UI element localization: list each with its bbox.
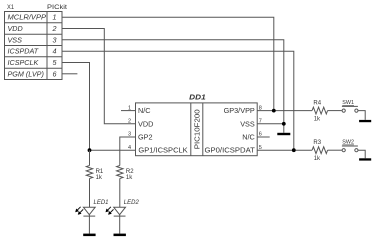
svg-text:1k: 1k	[314, 156, 321, 162]
node junction VSS	[282, 122, 286, 126]
svg-text:PICkit: PICkit	[47, 4, 67, 11]
svg-text:GP1/ICSPCLK: GP1/ICSPCLK	[138, 146, 187, 155]
wire R1 to LED1	[89, 179, 91, 208]
svg-text:6: 6	[259, 132, 262, 138]
pin 7 wire VSS	[257, 123, 284, 125]
switch SW1	[342, 106, 358, 112]
svg-text:VDD: VDD	[8, 24, 23, 33]
svg-text:GP2: GP2	[138, 133, 153, 142]
node junction on GP1 wire	[88, 148, 92, 152]
wire ICSPCLK from X1 pin5 down to GP1 row	[62, 63, 90, 151]
resistor R1	[86, 166, 92, 179]
svg-text:5: 5	[53, 58, 58, 67]
svg-text:LED2: LED2	[124, 200, 140, 206]
svg-text:ICSPDAT: ICSPDAT	[8, 47, 39, 56]
svg-text:MCLR/VPP: MCLR/VPP	[8, 13, 47, 22]
svg-text:2: 2	[128, 119, 131, 125]
svg-text:6: 6	[53, 69, 57, 78]
resistor R2	[117, 166, 123, 179]
svg-text:1: 1	[128, 105, 131, 111]
svg-text:LED1: LED1	[94, 200, 109, 206]
svg-text:X1: X1	[7, 4, 14, 11]
wire stub PGM (LVP) unconnected	[62, 73, 77, 75]
svg-text:2: 2	[52, 24, 57, 33]
svg-text:7: 7	[259, 119, 262, 125]
wire SW2 to ground	[358, 150, 365, 158]
svg-text:5: 5	[259, 145, 262, 151]
svg-text:8: 8	[259, 105, 262, 111]
wire VSS from X1 pin3 down to chip pin7 row	[62, 40, 284, 133]
wire VDD from X1 pin2 to chip pin2	[62, 29, 136, 124]
wire MCLR/VPP from X1 pin1 to GP3/VPP net	[62, 17, 274, 110]
svg-text:GP0/ICSPDAT: GP0/ICSPDAT	[205, 146, 256, 155]
LED1 emission arrows	[75, 207, 83, 215]
svg-text:PGM (LVP): PGM (LVP)	[8, 69, 44, 78]
node junction MCLR to GP3/VPP	[272, 109, 276, 113]
wire SW1 to ground	[358, 111, 365, 120]
svg-text:N/C: N/C	[138, 106, 151, 115]
pin 6 stub N/C	[257, 136, 270, 138]
svg-text:4: 4	[53, 47, 57, 56]
pin 4 wire GP1/ICSPCLK	[90, 149, 136, 151]
connector X1 outline	[5, 12, 63, 80]
resistor R4	[312, 107, 327, 114]
LED2	[114, 207, 126, 233]
svg-text:R4: R4	[313, 100, 321, 106]
pin 8 wire GP3/VPP to R4	[257, 110, 312, 112]
svg-text:VSS: VSS	[8, 35, 23, 44]
LED2 emission arrows	[106, 207, 114, 215]
resistor R3	[312, 147, 327, 154]
svg-text:N/C: N/C	[242, 133, 255, 142]
ground for LED1	[83, 234, 95, 237]
wire R1 top	[89, 150, 91, 165]
svg-text:SW2: SW2	[342, 140, 354, 146]
svg-text:DD1: DD1	[189, 95, 206, 102]
ground for SW2	[359, 158, 371, 160]
wire R2 to LED2	[119, 179, 121, 208]
svg-text:3: 3	[128, 132, 131, 138]
wire R4 to SW1	[328, 110, 342, 112]
ground for VSS	[277, 133, 290, 135]
ground for SW1	[359, 120, 371, 122]
wire R3 to SW2	[328, 149, 342, 151]
LED1	[83, 207, 95, 233]
op IC DD1 body	[136, 103, 258, 156]
svg-text:1k: 1k	[96, 175, 103, 181]
switch SW2	[342, 146, 358, 152]
svg-text:VSS: VSS	[240, 119, 255, 128]
pin 3 wire GP2 to resistor R2	[120, 137, 136, 166]
svg-text:4: 4	[128, 145, 131, 151]
pin 1 stub N/C	[121, 110, 136, 112]
ground for LED2	[114, 234, 126, 237]
node junction ICSPDAT to GP0	[292, 148, 296, 152]
pin 5 wire GP0/ICSPDAT to R3	[257, 149, 312, 151]
svg-text:R3: R3	[313, 140, 321, 146]
svg-text:1k: 1k	[126, 175, 133, 181]
svg-text:GP3/VPP: GP3/VPP	[224, 106, 255, 115]
svg-text:VDD: VDD	[138, 119, 153, 128]
svg-text:ICSPCLK: ICSPCLK	[8, 58, 40, 67]
svg-text:SW1: SW1	[342, 100, 354, 106]
svg-text:1k: 1k	[314, 116, 321, 122]
svg-text:1: 1	[53, 13, 57, 22]
svg-text:3: 3	[53, 35, 57, 44]
wire ICSPDAT from X1 pin4 down to GP0 row	[62, 51, 294, 150]
svg-text:PIC10F200: PIC10F200	[192, 109, 201, 149]
